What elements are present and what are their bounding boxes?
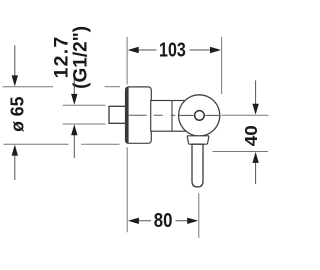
svg-text:12.7: 12.7 xyxy=(50,36,72,79)
dimension ext line 103 left xyxy=(126,37,128,85)
arrowhead 40 lower (up) xyxy=(252,152,258,163)
dimension line ø65 lower xyxy=(14,150,16,180)
wall flange (escutcheon) xyxy=(126,87,152,143)
arrowhead 40 upper (down) xyxy=(252,104,258,115)
svg-text:80: 80 xyxy=(154,209,173,232)
svg-text:(G1/2"): (G1/2") xyxy=(71,26,92,89)
valve body section xyxy=(151,101,187,132)
dimension ext line 40 top xyxy=(222,114,269,116)
G1/2 inlet stub xyxy=(109,106,127,123)
cartridge small circle xyxy=(195,111,205,121)
dimension line 12.7 upper xyxy=(73,70,75,97)
dimension line 40 lower xyxy=(255,158,257,184)
arrowhead 103 right xyxy=(210,47,221,53)
dimension ext line 12.7 bottom xyxy=(63,123,106,125)
dimension ext line 80 left xyxy=(126,147,128,232)
dimension line 80 xyxy=(133,220,151,222)
arrowhead 12.7 lower (up) xyxy=(71,124,77,135)
arrowhead 12.7 upper (down) xyxy=(71,94,77,105)
dimension ext line ø65 bottom xyxy=(4,143,120,145)
dimension ext line 12.7 top xyxy=(63,104,106,106)
svg-text:40: 40 xyxy=(241,125,261,146)
svg-text:103: 103 xyxy=(159,39,186,61)
centerline axis (dashed) xyxy=(129,114,177,116)
body divider line xyxy=(171,101,173,132)
control head circle xyxy=(179,95,220,136)
arrowhead ø65 lower (up) xyxy=(12,145,18,156)
dimension ext line ø65 top xyxy=(3,86,121,88)
dimension line 12.7 lower xyxy=(73,130,75,158)
handle lever shaft xyxy=(192,144,203,187)
arrowhead 103 left xyxy=(128,47,139,53)
arrowhead 80 left xyxy=(128,218,139,224)
flange wall-side thick edge xyxy=(125,88,128,143)
head horizontal centerline xyxy=(179,114,194,116)
dimension ext line 40 bottom xyxy=(213,151,269,153)
handle neck collar xyxy=(187,136,209,144)
svg-text:ø 65: ø 65 xyxy=(7,97,27,132)
dimension line ø65 upper xyxy=(14,45,16,80)
dimension ext line 103 right xyxy=(221,37,223,94)
arrowhead ø65 upper (down) xyxy=(12,75,18,86)
dimension ext line 80 right xyxy=(198,193,200,238)
arrowhead 80 right xyxy=(187,218,198,224)
dimension line 40 upper xyxy=(255,80,257,107)
dimension line 103 xyxy=(133,49,157,51)
